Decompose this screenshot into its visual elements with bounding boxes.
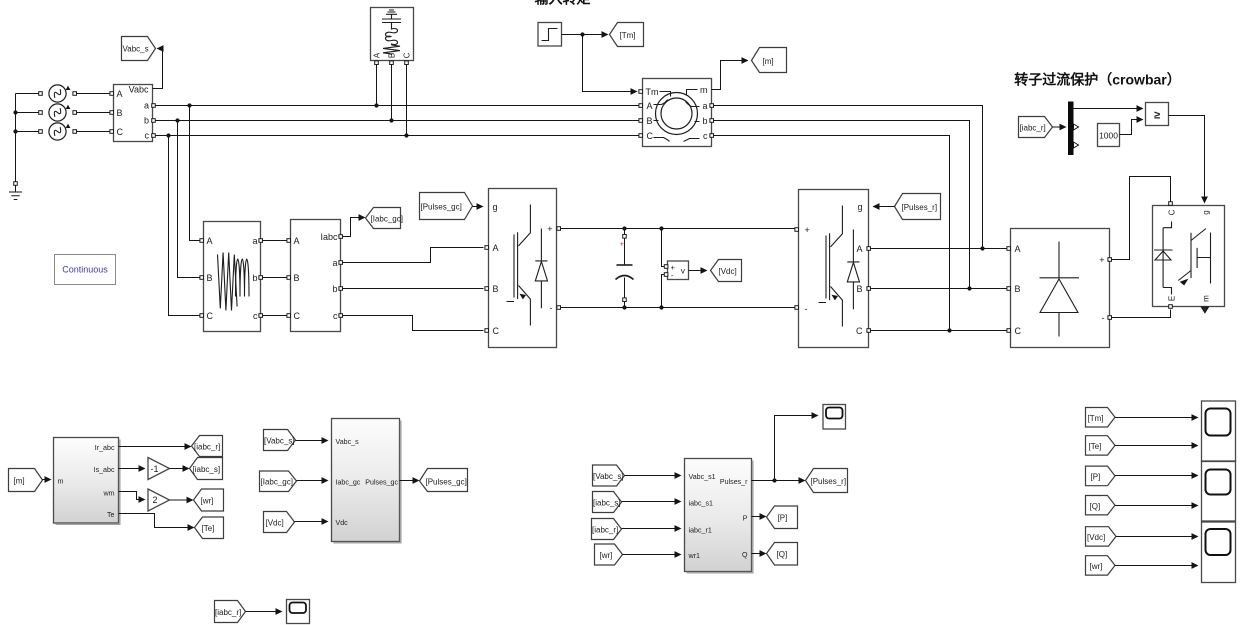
svg-text:C: C xyxy=(856,326,863,336)
svg-text:A: A xyxy=(856,244,862,254)
svg-text:C: C xyxy=(294,311,301,321)
wire bus c xyxy=(156,133,639,137)
svg-text:Is_abc: Is_abc xyxy=(94,466,115,474)
svg-text:+: + xyxy=(547,224,552,234)
from tag [Vabc_s] rotor control xyxy=(593,465,625,486)
svg-text:[Pulses_r]: [Pulses_r] xyxy=(811,477,847,486)
wire RLC C down xyxy=(406,65,408,136)
svg-text:Pulses_r: Pulses_r xyxy=(720,478,748,486)
AC source Vc xyxy=(39,123,77,140)
svg-text:iabc_r1: iabc_r1 xyxy=(689,527,712,535)
wire rotor b xyxy=(714,121,970,289)
goto tag [P] xyxy=(767,506,798,529)
scope iabc_r xyxy=(287,600,310,624)
wire DC plus rail xyxy=(561,226,797,230)
goto tag [iabc_r] xyxy=(192,436,223,457)
svg-text:[Te]: [Te] xyxy=(202,524,215,533)
svg-text:[Te]: [Te] xyxy=(1089,442,1102,451)
svg-text:[iabc_r]: [iabc_r] xyxy=(215,608,241,617)
svg-text:2: 2 xyxy=(153,495,158,505)
ground xyxy=(9,182,22,200)
wire Te to scope1 xyxy=(1115,442,1199,449)
svg-text:Iabc_gc: Iabc_gc xyxy=(336,479,361,487)
svg-text:B: B xyxy=(647,116,653,126)
svg-text:A: A xyxy=(117,89,123,99)
wire RLC B down xyxy=(391,65,393,121)
svg-text:C: C xyxy=(207,311,214,321)
three-phase V-I measurement 2 xyxy=(287,220,343,332)
wire dropper a to transformer A xyxy=(190,106,201,241)
from tag [Vdc] grid control xyxy=(264,512,295,533)
svg-text:A: A xyxy=(647,101,653,111)
crowbar IGBT block xyxy=(1153,202,1225,313)
svg-text:[Vabc_s]: [Vabc_s] xyxy=(264,437,295,446)
wire rotor a xyxy=(714,106,983,249)
wire bus a xyxy=(156,103,639,107)
svg-text:c: c xyxy=(703,131,708,141)
wire rotor A to rectifier xyxy=(871,246,1007,250)
wire constant to relational xyxy=(1120,116,1144,134)
svg-text:g: g xyxy=(493,202,498,212)
grid-side controller subsystem xyxy=(332,419,401,543)
scope P Q xyxy=(1202,462,1236,522)
DC link capacitor xyxy=(616,229,634,308)
svg-text:m: m xyxy=(1202,295,1211,302)
wire rotor c xyxy=(714,136,950,331)
svg-text:a: a xyxy=(144,101,149,111)
svg-text:B: B xyxy=(117,108,123,118)
wire to rotor controller in4 xyxy=(623,551,682,558)
svg-text:Q: Q xyxy=(742,551,748,559)
svg-text:g: g xyxy=(857,202,862,212)
svg-text:-: - xyxy=(550,303,553,313)
svg-text:[Q]: [Q] xyxy=(1090,502,1101,511)
demux xyxy=(1068,102,1079,156)
svg-text:[P]: [P] xyxy=(778,514,788,523)
gain -1 xyxy=(148,458,170,480)
svg-text:Vabc_s: Vabc_s xyxy=(123,45,149,54)
svg-text:b: b xyxy=(144,116,149,126)
constant 1000 xyxy=(1098,124,1120,147)
svg-text:[Vabc_s]: [Vabc_s] xyxy=(593,472,624,481)
svg-text:-: - xyxy=(1102,313,1105,323)
svg-text:[iabc_s]: [iabc_s] xyxy=(593,499,621,508)
svg-text:[Q]: [Q] xyxy=(777,550,788,559)
wire Tm to scope1 xyxy=(1115,414,1199,421)
svg-text:A: A xyxy=(373,52,382,58)
svg-text:[Vdc]: [Vdc] xyxy=(266,519,284,528)
from tag [Pulses_gc] xyxy=(420,193,473,220)
wire xyxy=(77,112,110,114)
svg-text:[wr]: [wr] xyxy=(1090,562,1103,571)
wire c to converter C xyxy=(343,316,484,331)
wire Pulses_r to tag xyxy=(752,477,806,484)
wire step to Tm tag xyxy=(562,31,609,38)
powergui Continuous xyxy=(55,255,116,285)
from tag [P] scope xyxy=(1086,466,1116,486)
grid-side converter xyxy=(485,189,561,348)
wire Vabc to tag xyxy=(153,45,164,88)
svg-text:转子过流保护（crowbar）: 转子过流保护（crowbar） xyxy=(1014,72,1180,88)
svg-text:[iabc_s]: [iabc_s] xyxy=(193,465,221,474)
svg-text:P: P xyxy=(743,515,748,523)
wire to bottom scope xyxy=(246,608,283,615)
three-phase V-I measurement 1 xyxy=(110,85,155,142)
wire transformer c xyxy=(263,315,287,317)
wire v to Vdc tag xyxy=(689,267,708,274)
asynchronous machine xyxy=(639,79,714,147)
from tag [Te] scope xyxy=(1086,436,1116,455)
wire to rotor controller in1 xyxy=(625,472,682,479)
svg-text:g: g xyxy=(1202,210,1211,214)
svg-text:+: + xyxy=(1099,255,1104,265)
goto tag [Pulses_gc] xyxy=(420,469,468,492)
goto tag [m] xyxy=(752,48,787,73)
svg-text:Vabc_s: Vabc_s xyxy=(336,438,360,446)
svg-text:Vdc: Vdc xyxy=(336,519,349,527)
svg-text:[iabc_r]: [iabc_r] xyxy=(194,443,220,452)
wire wr to scope3 xyxy=(1115,562,1199,569)
svg-text:c: c xyxy=(253,311,258,321)
wire rectifier minus to crowbar E xyxy=(1112,310,1171,318)
svg-text:C: C xyxy=(493,326,500,336)
svg-text:C: C xyxy=(117,127,124,137)
svg-text:+: + xyxy=(620,240,625,249)
wire controller to Pulses_gc tag xyxy=(400,477,420,484)
wire machine m to tag xyxy=(712,57,749,89)
svg-text:[m]: [m] xyxy=(763,57,774,66)
svg-text:Te: Te xyxy=(107,511,115,519)
wire P to tag xyxy=(752,513,767,520)
wire a to converter A xyxy=(343,248,484,263)
svg-text:[iabc_r]: [iabc_r] xyxy=(592,526,618,535)
from tag [iabc_r] crowbar xyxy=(1019,117,1053,138)
wire dropper b to transformer B xyxy=(178,121,201,278)
svg-text:[Tm]: [Tm] xyxy=(1088,414,1104,423)
goto tag Vabc_s xyxy=(122,37,156,61)
svg-text:a: a xyxy=(702,101,707,111)
wire relational to crowbar gate xyxy=(1169,116,1208,204)
wire step to machine Tm xyxy=(583,35,638,95)
wire to rotor controller in2 xyxy=(622,498,682,505)
wire Vdc to controller xyxy=(295,518,329,525)
title 输入转矩 xyxy=(535,0,591,7)
diode rectifier xyxy=(1007,229,1112,348)
wire bus b xyxy=(156,118,639,122)
wire Ir_abc to iabc_r tag xyxy=(119,443,192,450)
svg-text:[wr]: [wr] xyxy=(600,551,613,560)
wire Te to Te tag xyxy=(119,514,195,531)
wire Iabc to tag xyxy=(343,214,366,236)
wire Q to tag xyxy=(752,550,767,557)
from tag [Iabc_gc] grid control xyxy=(260,471,297,492)
from tag [Vabc_s] grid control xyxy=(264,430,296,451)
svg-text:[Vdc]: [Vdc] xyxy=(719,267,737,276)
svg-text:c: c xyxy=(145,131,150,141)
svg-text:-: - xyxy=(805,304,808,314)
svg-text:wm: wm xyxy=(102,490,114,498)
wire wm to gain 2 xyxy=(119,492,146,503)
svg-text:B: B xyxy=(493,284,499,294)
svg-text:[Vdc]: [Vdc] xyxy=(1087,533,1105,542)
wire dropper c to transformer C xyxy=(169,136,201,316)
svg-text:[Tm]: [Tm] xyxy=(620,31,636,40)
three-phase transformer xyxy=(200,222,263,332)
three-phase series RLC load xyxy=(371,8,414,65)
from tag [iabc_r] rotor control xyxy=(592,519,622,540)
wire demux out1 to relational xyxy=(1074,105,1144,112)
svg-text:Continuous: Continuous xyxy=(62,265,108,275)
from tag [wr] rotor control xyxy=(595,544,623,565)
wire tag to demux xyxy=(1053,124,1067,131)
from tag [iabc_s] rotor control xyxy=(593,492,622,513)
svg-text:b: b xyxy=(332,284,337,294)
svg-text:a: a xyxy=(252,236,257,246)
from tag [Tm] scope xyxy=(1086,408,1116,428)
svg-text:C: C xyxy=(647,131,654,141)
wire xyxy=(13,94,17,182)
wire gain to iabc_s tag xyxy=(170,465,190,472)
wire Q to scope2 xyxy=(1115,502,1199,509)
title 转子过流保护（crowbar） xyxy=(1014,72,1180,88)
AC source Vb xyxy=(39,104,77,121)
step block xyxy=(538,23,562,47)
svg-text:A: A xyxy=(207,236,213,246)
wire P to scope2 xyxy=(1115,472,1199,479)
wire xyxy=(16,112,39,114)
wire to voltage measurement minus xyxy=(662,275,666,308)
goto tag [Tm] xyxy=(610,23,644,47)
from tag [Pulses_r] xyxy=(895,194,941,220)
svg-text:1000: 1000 xyxy=(1099,131,1118,141)
wire tag to rotor g xyxy=(873,203,895,210)
from tag [m] xyxy=(9,469,43,492)
goto tag [wr] xyxy=(194,489,224,511)
svg-text:E: E xyxy=(1168,296,1177,301)
svg-text:Pulses_gc: Pulses_gc xyxy=(365,479,398,487)
machines measurement demux subsystem xyxy=(54,438,120,525)
svg-text:B: B xyxy=(1015,284,1021,294)
wire to voltage measurement plus xyxy=(662,229,666,267)
svg-text:m: m xyxy=(700,85,708,95)
voltage measurement Vdc xyxy=(664,261,688,280)
AC source Va xyxy=(39,85,77,102)
svg-text:B: B xyxy=(207,273,213,283)
svg-text:wr1: wr1 xyxy=(688,552,700,560)
svg-text:B: B xyxy=(294,273,300,283)
svg-text:A: A xyxy=(294,236,300,246)
svg-text:Ir_abc: Ir_abc xyxy=(95,444,115,452)
wire rectifier plus to crowbar C xyxy=(1112,177,1171,260)
scope pulses xyxy=(823,405,846,430)
scope Vdc wr xyxy=(1202,522,1236,583)
svg-text:Vabc: Vabc xyxy=(129,85,149,95)
wire Vdc to scope3 xyxy=(1116,533,1199,540)
goto tag [Q] xyxy=(767,543,798,566)
svg-text:Tm: Tm xyxy=(646,87,659,97)
svg-text:[Pulses_gc]: [Pulses_gc] xyxy=(421,203,462,212)
svg-text:C: C xyxy=(1015,326,1022,336)
svg-text:Vabc_s1: Vabc_s1 xyxy=(689,473,716,481)
svg-text:c: c xyxy=(333,311,338,321)
rotor-side controller subsystem xyxy=(685,459,753,573)
svg-text:输入转矩: 输入转矩 xyxy=(535,0,591,7)
svg-text:B: B xyxy=(388,53,397,58)
wire xyxy=(16,93,39,95)
svg-text:m: m xyxy=(58,478,64,486)
wire transformer a xyxy=(263,240,287,242)
wire Is_abc to gain xyxy=(119,465,146,472)
from tag [wr] scope xyxy=(1086,556,1116,575)
wire RLC A down xyxy=(376,65,378,106)
wire to rotor controller in3 xyxy=(622,525,682,532)
svg-text:+: + xyxy=(805,225,810,235)
svg-text:b: b xyxy=(252,273,257,283)
svg-text:B: B xyxy=(856,284,862,294)
svg-text:[Pulses_gc]: [Pulses_gc] xyxy=(426,478,467,487)
from tag [iabc_r] bottom scope xyxy=(215,601,246,623)
from tag [Vdc] scope xyxy=(1086,527,1117,546)
wire rotor B to rectifier xyxy=(871,286,1007,290)
svg-text:[wr]: [wr] xyxy=(201,497,214,506)
svg-text:A: A xyxy=(493,243,499,253)
wire transformer b xyxy=(263,277,287,279)
svg-text:C: C xyxy=(1168,209,1177,215)
wire xyxy=(77,131,110,133)
svg-text:-1: -1 xyxy=(151,464,159,474)
goto tag [Iabc_gc] xyxy=(366,208,403,229)
wire Iabc_gc to controller xyxy=(297,477,329,484)
wire rotor C to rectifier xyxy=(871,328,1007,332)
goto tag [Pulses_r] xyxy=(806,469,848,493)
from tag [Q] scope xyxy=(1086,496,1116,515)
wire gain 2 to wr tag xyxy=(170,497,194,504)
rotor-side converter xyxy=(795,190,871,348)
goto tag [Vdc] xyxy=(711,260,742,282)
svg-text:[Pulses_r]: [Pulses_r] xyxy=(902,203,938,212)
wire xyxy=(77,93,110,95)
svg-text:C: C xyxy=(403,52,412,58)
svg-text:b: b xyxy=(702,116,707,126)
relational operator >= xyxy=(1146,103,1169,126)
wire xyxy=(16,131,39,133)
wire DC minus rail xyxy=(561,305,797,309)
wire m tag to subsystem xyxy=(43,476,52,483)
wire Pulses_r to scope xyxy=(775,412,819,480)
svg-text:Iabc: Iabc xyxy=(320,232,338,242)
scope Tm Te xyxy=(1202,401,1236,461)
svg-text:a: a xyxy=(332,258,337,268)
gain 2 xyxy=(148,489,170,511)
svg-text:[P]: [P] xyxy=(1091,473,1101,482)
goto tag [Te] xyxy=(195,517,224,539)
svg-text:[iabc_r]: [iabc_r] xyxy=(1020,124,1046,133)
svg-text:[m]: [m] xyxy=(14,477,25,486)
svg-text:iabc_s1: iabc_s1 xyxy=(689,500,714,508)
svg-text:A: A xyxy=(1015,244,1021,254)
svg-text:[Iabc_gc]: [Iabc_gc] xyxy=(371,215,403,224)
svg-text:≥: ≥ xyxy=(1154,110,1160,122)
wire b to converter B xyxy=(343,288,484,290)
wire tag to converter g xyxy=(473,203,484,210)
wire Vabc_s to controller xyxy=(296,437,329,444)
svg-text:[Iabc_gc]: [Iabc_gc] xyxy=(261,478,293,487)
goto tag [iabc_s] xyxy=(190,458,223,480)
